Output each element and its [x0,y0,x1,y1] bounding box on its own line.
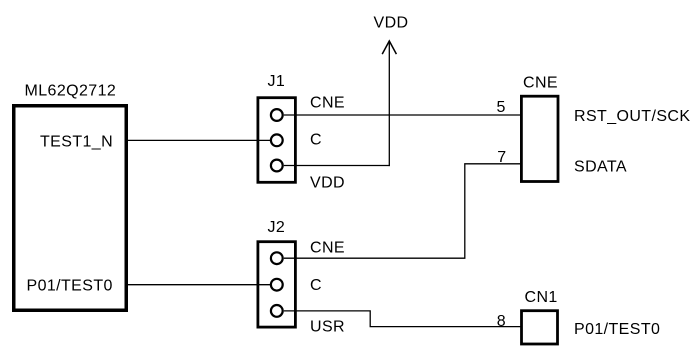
svg-text:RST_OUT/SCK: RST_OUT/SCK [574,108,690,125]
connector CNE body [521,96,558,181]
svg-text:7: 7 [497,149,506,166]
wire J2 USR to CN1 pin 8 [284,311,521,327]
svg-text:J2: J2 [268,219,286,236]
wire TEST1_N to J1 pin C [127,139,271,141]
J1 pin 2 circle [271,134,283,146]
svg-text:CNE: CNE [523,75,558,92]
power symbol VDD arrowhead [382,41,396,54]
IC U1 ML62Q2712 body [14,106,127,311]
svg-text:CNE: CNE [310,240,345,257]
wire P01/TEST0 to J2 pin C [127,284,271,286]
svg-text:SDATA: SDATA [574,159,627,176]
svg-text:J1: J1 [268,73,286,90]
svg-text:5: 5 [496,99,505,116]
J2 pin 2 circle [271,279,283,291]
wire J1 VDD to VDD rail [284,165,390,167]
svg-text:P01/TEST0: P01/TEST0 [574,321,660,338]
svg-text:P01/TEST0: P01/TEST0 [27,278,113,295]
svg-text:CN1: CN1 [525,289,558,306]
svg-text:8: 8 [497,313,506,330]
connector J2 body [258,242,296,327]
connector J1 body [258,98,296,183]
svg-text:USR: USR [310,319,345,336]
svg-text:VDD: VDD [310,175,345,192]
svg-text:CNE: CNE [310,95,345,112]
svg-text:VDD: VDD [374,15,409,32]
svg-text:C: C [310,132,322,149]
wire J1 CNE to CNE pin 5 [284,114,521,116]
connector CN1 body [522,311,558,344]
svg-text:ML62Q2712: ML62Q2712 [25,83,117,100]
J2 pin 3 circle [271,305,283,317]
J2 pin 1 circle [271,252,283,264]
J1 pin 1 circle [271,109,283,121]
svg-text:TEST1_N: TEST1_N [40,134,113,151]
wire J2 CNE to CNE pin 7 [284,164,521,258]
J1 pin 3 circle [271,160,283,172]
power symbol VDD arrow shaft [388,41,390,166]
svg-text:C: C [310,277,322,294]
